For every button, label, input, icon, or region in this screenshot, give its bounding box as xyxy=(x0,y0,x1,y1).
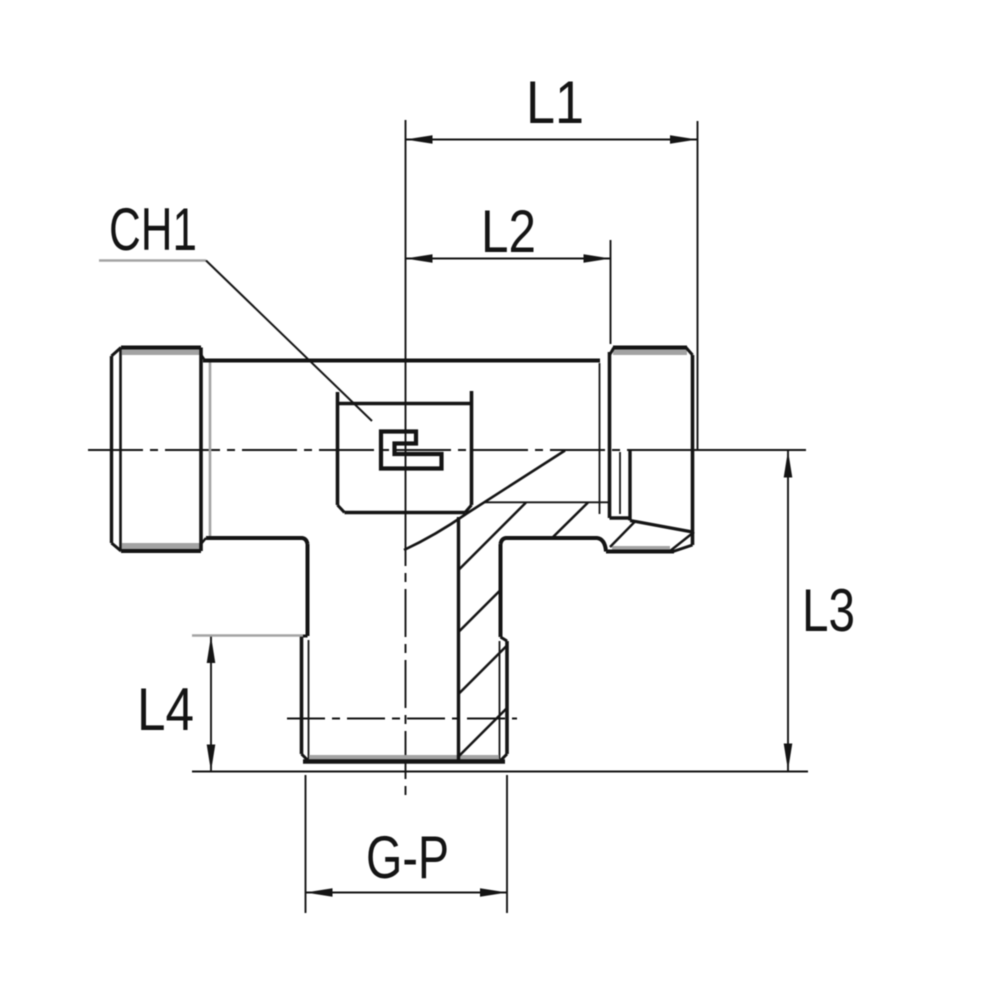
bore lower wall horizontal xyxy=(484,501,609,503)
right nut bottom hatch 2 xyxy=(610,522,635,548)
hatch 4 xyxy=(459,708,507,756)
hatch 3 xyxy=(459,646,507,694)
port square left edge xyxy=(336,392,340,505)
svg-text:L4: L4 xyxy=(137,676,194,743)
dimension L1 line xyxy=(406,139,698,141)
internal hex spiral symbol xyxy=(381,432,442,469)
right nut top-left chamfer xyxy=(610,348,615,356)
thread chamfer bottom-left xyxy=(302,754,310,762)
right nut bottom gray band xyxy=(612,546,670,551)
right nut section inner vertical xyxy=(628,450,631,521)
hatch 1 xyxy=(459,503,526,570)
left nut top chamfer xyxy=(112,348,122,357)
thread step right xyxy=(501,637,508,641)
svg-text:L3: L3 xyxy=(802,577,855,644)
right nut left face xyxy=(608,352,612,518)
dimension L4 arrow top xyxy=(207,636,216,663)
svg-text:L1: L1 xyxy=(526,69,584,136)
left nut right face xyxy=(199,348,203,552)
right nut section horizontal xyxy=(610,516,631,519)
dimension GP arrow right xyxy=(480,888,507,897)
left nut end face outer edge xyxy=(110,356,113,543)
dimension GP arrow left xyxy=(306,888,333,897)
right nut top gray band xyxy=(613,349,687,355)
port square right edge xyxy=(470,391,474,505)
dimension L4 line xyxy=(210,636,212,772)
svg-text:CH1: CH1 xyxy=(109,196,197,263)
dimension L2 line xyxy=(406,258,611,260)
left nut bottom chamfer xyxy=(112,543,122,551)
hatch 2a xyxy=(552,503,588,539)
dimension GP line xyxy=(306,892,508,894)
thread crest right xyxy=(505,641,509,754)
port square bottom-right chamfer xyxy=(465,505,472,513)
dimension L4 arrow bottom xyxy=(207,745,216,772)
dimension L1 arrow left xyxy=(406,135,433,144)
dimension L1 arrow right xyxy=(670,135,697,144)
stem upper left edge xyxy=(306,544,310,636)
dimension L4 top extension gray xyxy=(192,634,303,636)
right nut top edge xyxy=(613,346,687,350)
center line vertical (stem axis / L1 L2 left extension) xyxy=(405,120,407,518)
center line horizontal (main axis) xyxy=(88,449,672,451)
port square bottom-left chamfer xyxy=(338,505,345,513)
bottom extension line shared L4 L3 xyxy=(192,771,808,773)
left nut bottom edge xyxy=(121,549,201,553)
stem upper right edge xyxy=(499,544,503,637)
dimension L3 arrow top xyxy=(784,451,793,478)
right nut bottom slant xyxy=(630,521,693,533)
dimension L3 arrow bottom xyxy=(784,744,793,771)
thread crest left xyxy=(300,636,304,754)
port square top edge xyxy=(338,402,472,406)
left nut-body transition gray line xyxy=(209,362,212,537)
dimension L1 right extension xyxy=(697,121,699,450)
svg-text:G-P: G-P xyxy=(366,824,449,891)
left nut top edge xyxy=(121,346,201,350)
right nut left hex flat edge xyxy=(599,363,601,514)
body bottom edge right xyxy=(501,538,607,552)
leader CH1 line xyxy=(206,261,372,422)
right nut bottom chamfer xyxy=(673,545,693,552)
left nut bottom gray band xyxy=(122,543,200,549)
right nut right face xyxy=(691,355,695,545)
right nut bottom hatch xyxy=(670,532,694,551)
dimension GP left extension xyxy=(305,775,307,913)
right nut section thin vertical xyxy=(619,452,621,514)
thread step left xyxy=(302,635,308,638)
thread root right xyxy=(499,641,501,759)
right nut bottom edge xyxy=(606,550,674,554)
dimension L2 arrow left xyxy=(406,254,433,263)
hatch 2b xyxy=(459,590,501,632)
stem bottom gray band xyxy=(309,755,499,760)
body top edge xyxy=(203,359,600,363)
dimension L2 arrow right xyxy=(584,254,611,263)
leader CH1 underline gray xyxy=(99,259,206,261)
left nut end face inner edge xyxy=(119,348,122,551)
svg-text:L2: L2 xyxy=(481,198,536,265)
bore curve xyxy=(404,451,565,551)
right nut top-right chamfer xyxy=(686,348,693,356)
dimension L3 line xyxy=(787,451,789,771)
bore wall vertical xyxy=(457,517,460,760)
thread root left xyxy=(308,640,310,759)
left nut top gray band xyxy=(122,349,200,355)
body top-left step chamfer xyxy=(201,355,205,361)
dimension GP right extension xyxy=(506,775,508,913)
body bottom-left step chamfer xyxy=(201,538,206,544)
stem bottom face xyxy=(303,759,505,763)
center line stem gauge plane xyxy=(287,718,517,720)
body bottom edge left xyxy=(206,538,308,544)
dimension L2 right extension xyxy=(610,240,612,344)
center line vertical lower dashed xyxy=(405,518,407,796)
center line horizontal L3 extension xyxy=(672,449,806,451)
thread chamfer bottom-right xyxy=(500,754,508,762)
port square bottom edge xyxy=(345,511,466,515)
